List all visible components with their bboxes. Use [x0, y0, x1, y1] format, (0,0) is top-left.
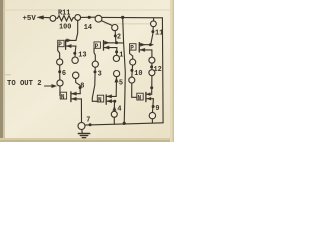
label 14 [84, 24, 92, 32]
node circle on gate line lower [129, 77, 135, 83]
faint scan streak mid [104, 22, 152, 25]
transistor Q5 P-channel box [130, 43, 140, 52]
pin 4 terminal circle [111, 111, 117, 117]
wire pin12 down to N drain [151, 76, 153, 95]
wire gate to N gate [132, 83, 137, 97]
pin 9 terminal circle [149, 112, 155, 118]
transistor Q4 N-channel box [97, 95, 106, 104]
node circle left of R11 [50, 16, 56, 22]
Q4 source lead with arrow [106, 99, 114, 102]
svg-text:3: 3 [98, 70, 102, 78]
label 6 [62, 70, 66, 78]
wire right rail vertical [161, 18, 164, 123]
Q4 drain lead with arrow [106, 95, 116, 98]
Q5 source lead with arrow [139, 43, 153, 46]
Q1 source lead with arrow [66, 39, 76, 42]
wire Q6 source down [152, 99, 155, 113]
label 1 [119, 52, 123, 60]
svg-text:8: 8 [80, 82, 84, 90]
Q3 drain lead with arrow [104, 46, 117, 49]
svg-text:N: N [61, 93, 65, 100]
junction dot pin2 [114, 34, 117, 37]
label 4 [117, 106, 121, 114]
wire long vertical [123, 17, 126, 123]
pin 13 terminal circle [72, 57, 78, 63]
wire gate line down [131, 65, 134, 77]
junction dot pin6 [58, 70, 61, 73]
svg-text:100: 100 [59, 24, 71, 32]
transistor Q6 N-channel box [137, 92, 146, 101]
junction dot long vertical bottom [123, 122, 126, 125]
pin 3 terminal circle [92, 61, 98, 67]
wire pin11 stem lower [151, 27, 154, 45]
pin 1 terminal circle [113, 55, 119, 61]
label 3 [98, 70, 102, 78]
right edge shading [170, 0, 174, 142]
Q2 source lead with arrow [71, 97, 82, 100]
wire pin9 to rail [151, 119, 153, 123]
svg-text:9: 9 [155, 105, 159, 113]
Q2 drain lead with arrow [71, 92, 80, 95]
svg-text:13: 13 [78, 51, 86, 59]
label 100 [59, 24, 71, 32]
junction dot 14 [88, 16, 91, 19]
node circle right of R11 [75, 15, 81, 21]
wire pin11 stem from rail [153, 18, 155, 21]
bottom edge shadow [0, 138, 174, 142]
wire Q1 gate line [58, 47, 60, 59]
svg-text:P: P [130, 45, 134, 52]
svg-text:N: N [138, 94, 142, 101]
svg-text:14: 14 [84, 24, 92, 32]
wire Q3 drain down [116, 48, 118, 56]
junction dot on bottom rail near pin7 [89, 123, 92, 126]
wire pin8 stem [76, 79, 81, 94]
TO OUT 2 arrow [45, 84, 57, 87]
Q6 source lead with arrow [146, 97, 154, 100]
svg-text:TO OUT 2: TO OUT 2 [7, 80, 42, 88]
label 9 [155, 105, 159, 113]
junction dot Q5 source [149, 43, 152, 46]
faint scan streak upper [4, 10, 170, 11]
wire pin4 stem with up arrow [113, 101, 116, 111]
label 7 [86, 117, 90, 125]
wire Q2 source down to pin7 [80, 99, 82, 123]
paper background [0, 0, 174, 142]
junction dot Q3 source / pin2 [115, 41, 118, 44]
node circle on gate line pin6 [57, 59, 63, 65]
label 8 [80, 82, 84, 90]
junction dot pin11 [151, 30, 154, 33]
wire between pin12 circles [151, 63, 153, 69]
pin 8 terminal circle [73, 72, 79, 78]
svg-text:4: 4 [117, 106, 121, 114]
transistor Q2 N-channel box [60, 92, 71, 102]
wire pin2 stem [114, 31, 117, 43]
svg-text:6: 6 [62, 70, 66, 78]
label 11 [155, 29, 163, 37]
junction dot drain tie [150, 86, 153, 89]
label 5 [119, 79, 123, 87]
wire pin5 stem with up arrow [115, 77, 118, 97]
pin 2 terminal circle [112, 25, 118, 31]
junction dot on rail for long vertical [121, 16, 124, 19]
label TO OUT 2 [7, 80, 42, 88]
svg-text:2: 2 [117, 33, 121, 41]
transistor Q3 P-channel box [94, 41, 104, 50]
svg-text:N: N [98, 96, 102, 103]
svg-text:5: 5 [119, 79, 123, 87]
pin 5 terminal circle [114, 71, 120, 77]
Q3 source lead with arrow [104, 41, 124, 44]
junction dot pin9 [152, 105, 155, 108]
junction dot pin12 [150, 65, 153, 68]
label 10 [134, 70, 142, 78]
wire from pin14 node down to Q1 source [76, 20, 78, 40]
node circle pin14 on rail [95, 15, 102, 22]
wire Q5 drain down [151, 50, 153, 57]
junction dot pin13 [73, 52, 76, 55]
left page edge shadow [0, 0, 3, 142]
+5V arrow [37, 16, 50, 20]
svg-text:+5V: +5V [23, 15, 37, 23]
svg-text:P: P [95, 43, 99, 50]
junction dot pin1 [115, 50, 118, 53]
Q1 drain lead with arrow [66, 44, 76, 47]
pin 10 terminal circle [130, 59, 136, 65]
wire Q1 drain down [74, 46, 77, 57]
transistor Q1 P-channel box [58, 40, 66, 49]
wire top rail [81, 16, 96, 18]
svg-text:P: P [58, 41, 62, 48]
wire gate line mid [59, 65, 61, 80]
pin 12 terminal circle lower [149, 70, 155, 76]
pin 12 terminal circle upper [149, 57, 155, 63]
faint scan streak left [3, 74, 11, 75]
node circle TO OUT tap [57, 80, 63, 86]
wire Q3 gate line [94, 48, 95, 61]
svg-text:R11: R11 [58, 10, 70, 18]
label 12 [154, 66, 162, 74]
diagonal wire to pin2 circle [102, 21, 113, 26]
Q5 drain lead with arrow [139, 48, 152, 51]
Q6 drain lead with arrow [146, 93, 152, 96]
+5V label [23, 15, 37, 23]
wire bottom rail [85, 123, 164, 125]
junction dot pin4 top [113, 100, 116, 103]
ground [78, 130, 89, 138]
svg-text:10: 10 [134, 70, 142, 78]
wire gate line to N gate [59, 86, 61, 95]
junction dot pin8 [79, 86, 82, 89]
resistor R11 zigzag [56, 16, 75, 21]
pin 7 terminal circle [78, 123, 85, 130]
pin 11 terminal circle [151, 21, 157, 27]
junction dot pin3 [94, 70, 97, 73]
label 13 [78, 51, 86, 59]
wire Q5 gate line [130, 50, 133, 59]
label 2 [117, 33, 121, 41]
wire gate line down [92, 67, 97, 101]
label R11 [58, 10, 70, 18]
junction dot pin10 [130, 69, 133, 72]
wire pin4 to rail [113, 117, 115, 124]
